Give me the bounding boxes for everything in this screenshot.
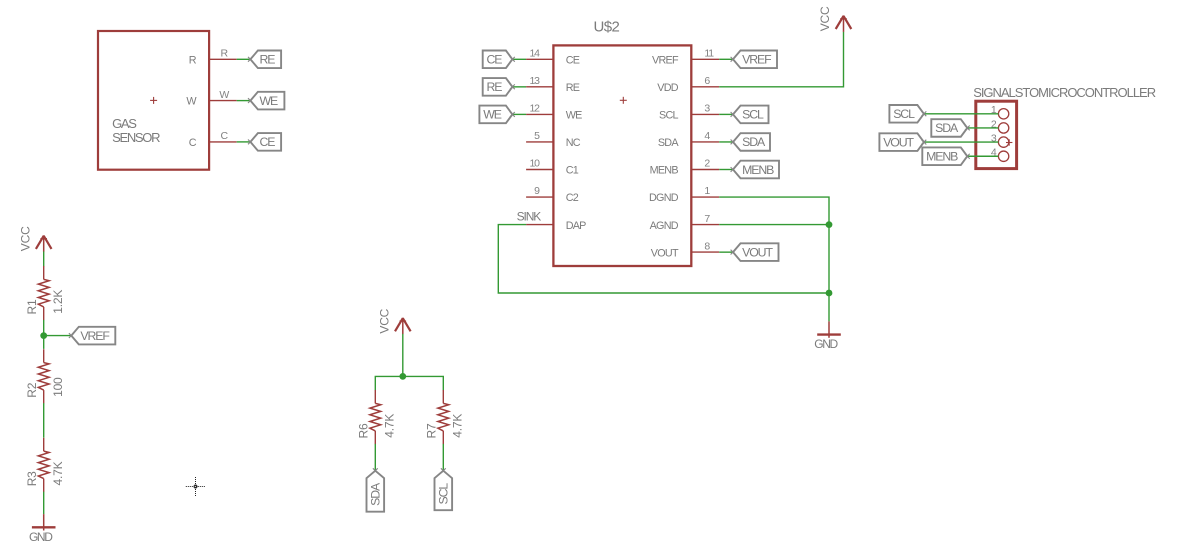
- label VOUT (connector): [879, 133, 926, 151]
- svg-text:R1: R1: [25, 299, 39, 314]
- IC U$2 right pin DGND pin 1: [649, 185, 719, 204]
- gas sensor label text GAS SENSOR: [112, 116, 160, 145]
- wire net SCL to connector: [924, 113, 999, 115]
- svg-text:CE: CE: [566, 55, 580, 67]
- wire VCC to pullup node: [402, 334, 404, 377]
- svg-text:SENSOR: SENSOR: [112, 130, 160, 145]
- wire net VCC from VDD pin: [719, 32, 843, 87]
- svg-text:R6: R6: [357, 423, 371, 438]
- svg-text:GND: GND: [29, 530, 53, 544]
- wire net GND from AGND pin: [719, 224, 829, 226]
- label SDA (connector): [931, 119, 969, 137]
- svg-text:VCC: VCC: [818, 6, 832, 31]
- svg-text:SDA: SDA: [658, 137, 679, 149]
- svg-text:SDA: SDA: [935, 121, 959, 135]
- gas sensor pin C: [189, 130, 237, 149]
- wire pullup rail: [375, 376, 443, 390]
- svg-text:SCL: SCL: [893, 107, 915, 121]
- svg-text:GND: GND: [814, 337, 838, 351]
- svg-text:4.7K: 4.7K: [51, 461, 65, 485]
- svg-text:4.7K: 4.7K: [383, 414, 397, 438]
- svg-text:VREF: VREF: [742, 53, 772, 67]
- label VREF (divider): [69, 327, 115, 345]
- IC U$2 right pin VOUT pin 8: [651, 240, 719, 259]
- label CE (IC left): [483, 51, 515, 69]
- svg-text:C2: C2: [566, 192, 579, 204]
- wire net SINK (DAP to GND rail): [498, 225, 829, 293]
- label VREF (IC right): [731, 51, 777, 69]
- connector pin 3 circle: [991, 133, 1009, 148]
- wire R1 to R2 (VREF node): [43, 320, 45, 349]
- svg-text:VREF: VREF: [80, 329, 110, 343]
- wire net MENB to connector: [967, 155, 998, 157]
- wire net MENB from IC: [719, 169, 733, 171]
- origin cross gas sensor origin +: [150, 97, 157, 104]
- svg-text:RE: RE: [487, 80, 503, 94]
- svg-text:RE: RE: [566, 82, 580, 94]
- svg-text:U$2: U$2: [594, 19, 620, 36]
- svg-text:SDA: SDA: [369, 482, 383, 506]
- label RE (IC left): [483, 78, 515, 96]
- wire R7 to SCL label: [442, 444, 444, 471]
- IC U$2 left pin RE pin 13: [526, 75, 580, 94]
- junction SINK/GND node: [826, 290, 833, 297]
- wire R3 to GND: [43, 492, 45, 514]
- IC U$2 left pin C2 pin 9: [526, 185, 579, 204]
- svg-text:VDD: VDD: [657, 82, 678, 94]
- svg-text:12: 12: [530, 103, 541, 115]
- wire net RE to IC: [512, 86, 526, 88]
- ground symbol GND (left): [29, 514, 56, 544]
- IC U$2 left pin NC pin 5: [526, 130, 581, 149]
- label WE (gas sensor): [248, 92, 284, 110]
- label SDA (pullup): [367, 468, 385, 511]
- svg-text:DAP: DAP: [566, 220, 586, 232]
- origin cross connector origin +: [1006, 139, 1012, 145]
- svg-text:GAS: GAS: [112, 116, 137, 131]
- wire net SDA to connector: [967, 127, 998, 129]
- svg-text:C: C: [189, 137, 197, 149]
- wire R6 to SDA label: [374, 444, 376, 471]
- label SCL (IC right): [731, 106, 769, 124]
- svg-text:CE: CE: [260, 135, 276, 149]
- svg-text:W: W: [219, 89, 229, 101]
- svg-text:CE: CE: [487, 53, 503, 67]
- junction AGND/DGND node: [826, 221, 833, 228]
- svg-text:4.7K: 4.7K: [451, 414, 465, 438]
- wire net VOUT from IC: [719, 251, 733, 253]
- IC U$2 right pin SCL pin 3: [659, 103, 719, 122]
- svg-text:WE: WE: [483, 108, 502, 122]
- svg-text:VCC: VCC: [378, 308, 392, 333]
- IC U$2 right pin VDD pin 6: [657, 75, 719, 94]
- svg-text:SIGNALSTOMICROCONTROLLER: SIGNALSTOMICROCONTROLLER: [973, 85, 1156, 100]
- svg-text:100: 100: [51, 377, 65, 397]
- IC U$2 right pin VREF pin 11: [652, 48, 719, 67]
- IC U$2 left pin C1 pin 10: [526, 158, 579, 177]
- wire net SCL from IC: [719, 113, 733, 115]
- label WE (IC left): [479, 106, 514, 124]
- junction pullup node: [399, 373, 406, 380]
- svg-text:11: 11: [704, 48, 714, 60]
- svg-text:WE: WE: [566, 110, 582, 122]
- svg-text:SCL: SCL: [659, 110, 678, 122]
- resistor R6 4.7K: [357, 390, 397, 444]
- svg-text:VCC: VCC: [18, 226, 32, 251]
- IC U$2 right pin AGND pin 7: [650, 213, 720, 232]
- svg-text:1.2K: 1.2K: [51, 290, 65, 314]
- gas sensor box (part outline): [98, 31, 209, 170]
- svg-text:W: W: [186, 96, 197, 108]
- label SCL (connector): [889, 105, 926, 123]
- resistor R1 1.2K: [25, 266, 65, 320]
- svg-text:RE: RE: [260, 53, 276, 67]
- svg-text:C1: C1: [566, 165, 579, 177]
- wire VCC to R1: [43, 252, 45, 267]
- supply symbol VCC (left): [18, 226, 51, 252]
- IC U$2 left pin WE pin 12: [526, 103, 582, 122]
- svg-text:WE: WE: [260, 94, 279, 108]
- svg-text:MENB: MENB: [742, 163, 774, 177]
- svg-text:R7: R7: [425, 423, 439, 438]
- resistor R7 4.7K: [425, 390, 465, 444]
- label MENB (connector): [922, 147, 969, 165]
- connector pin 4 circle: [991, 147, 1009, 162]
- wire net VOUT to connector: [924, 141, 999, 143]
- wire net SDA from IC: [719, 141, 733, 143]
- gas sensor pin R: [189, 48, 237, 67]
- junction VREF node: [40, 332, 47, 339]
- svg-text:SDA: SDA: [742, 135, 766, 149]
- label CE (gas sensor): [248, 133, 281, 151]
- wire VREF node to label: [44, 335, 72, 337]
- wire net WE to IC: [512, 113, 526, 115]
- IC U$2 right pin SDA pin 4: [658, 130, 719, 149]
- svg-text:R: R: [189, 54, 197, 66]
- svg-text:VOUT: VOUT: [651, 247, 679, 259]
- wire net VREF from IC: [719, 58, 733, 60]
- IC U$2 right pin MENB pin 2: [650, 158, 720, 177]
- svg-text:MENB: MENB: [650, 165, 679, 177]
- connector pin 1 circle: [991, 104, 1009, 119]
- svg-text:SCL: SCL: [437, 483, 451, 505]
- wire net GND from DGND pin: [719, 197, 829, 321]
- svg-text:R2: R2: [25, 382, 39, 397]
- svg-text:SCL: SCL: [742, 108, 764, 122]
- ground symbol GND (right): [814, 321, 841, 351]
- svg-text:10: 10: [530, 158, 541, 170]
- IC U$2 left pin DAP: [526, 220, 586, 232]
- svg-text:13: 13: [530, 75, 541, 87]
- svg-text:VREF: VREF: [652, 55, 679, 67]
- svg-text:VOUT: VOUT: [742, 245, 773, 259]
- supply symbol VCC (top right): [818, 6, 851, 32]
- wire net CE to IC: [512, 58, 526, 60]
- supply symbol VCC (middle): [378, 308, 411, 334]
- svg-text:R3: R3: [25, 471, 39, 486]
- label RE (gas sensor): [248, 51, 281, 69]
- IC U$2 box outline: [553, 45, 691, 266]
- svg-text:14: 14: [530, 48, 541, 60]
- IC U$2 left pin CE pin 14: [526, 48, 580, 67]
- label SDA (IC right): [731, 133, 770, 151]
- wire net WE at gas sensor: [237, 100, 251, 102]
- resistor R3 4.7K: [25, 438, 65, 492]
- connector pin 2 circle: [991, 118, 1009, 133]
- svg-text:AGND: AGND: [650, 220, 679, 232]
- wire R2 to R3: [43, 403, 45, 438]
- svg-text:VOUT: VOUT: [883, 135, 914, 149]
- resistor R2 100: [25, 349, 65, 403]
- wire net RE at gas sensor: [237, 58, 251, 60]
- connector box outline: [976, 101, 1017, 168]
- gas sensor pin W: [186, 89, 236, 108]
- svg-text:SINK: SINK: [517, 210, 542, 224]
- label SCL (pullup): [435, 468, 453, 510]
- label VOUT (IC right): [731, 243, 779, 261]
- svg-text:NC: NC: [566, 137, 581, 149]
- origin cross U$2 origin +: [620, 97, 627, 104]
- wire net CE at gas sensor: [237, 141, 251, 143]
- sheet reference cross: [186, 477, 205, 496]
- svg-text:DGND: DGND: [649, 192, 679, 204]
- label MENB (IC right): [731, 161, 779, 179]
- svg-text:MENB: MENB: [926, 150, 958, 164]
